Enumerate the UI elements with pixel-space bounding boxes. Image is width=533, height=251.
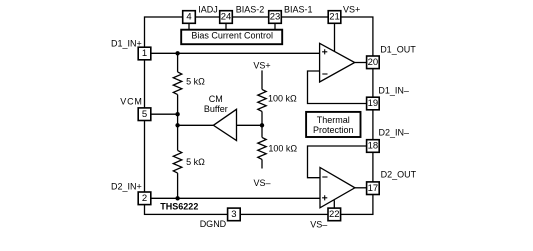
svg-text:5 kΩ: 5 kΩ: [186, 157, 205, 167]
svg-text:23: 23: [270, 12, 281, 23]
svg-text:5: 5: [142, 109, 147, 120]
svg-text:IADJ: IADJ: [198, 4, 218, 14]
svg-text:VS+: VS+: [343, 5, 360, 15]
svg-text:1: 1: [142, 48, 147, 59]
svg-text:VS–: VS–: [310, 219, 327, 229]
svg-text:THS6222: THS6222: [160, 202, 198, 212]
svg-text:4: 4: [186, 12, 191, 23]
svg-text:20: 20: [368, 57, 379, 68]
svg-text:21: 21: [329, 12, 340, 23]
svg-text:100 kΩ: 100 kΩ: [268, 143, 297, 153]
svg-text:DGND: DGND: [200, 219, 227, 229]
svg-text:D1_IN–: D1_IN–: [378, 86, 409, 96]
svg-text:2: 2: [142, 193, 147, 204]
svg-text:D2_IN–: D2_IN–: [379, 128, 410, 138]
svg-text:BIAS-1: BIAS-1: [284, 4, 313, 14]
svg-text:17: 17: [368, 183, 379, 194]
svg-text:D1_IN+: D1_IN+: [111, 38, 142, 48]
svg-text:Buffer: Buffer: [204, 104, 228, 114]
svg-text:D2_IN+: D2_IN+: [111, 181, 142, 191]
svg-text:Protection: Protection: [313, 125, 354, 135]
svg-text:BIAS-2: BIAS-2: [236, 4, 265, 14]
svg-text:22: 22: [329, 209, 340, 220]
svg-text:24: 24: [221, 12, 232, 23]
svg-text:5 kΩ: 5 kΩ: [186, 76, 205, 86]
svg-text:D1_OUT: D1_OUT: [380, 45, 416, 55]
svg-text:CM: CM: [209, 94, 223, 104]
svg-text:Thermal: Thermal: [317, 115, 350, 125]
svg-text:19: 19: [368, 98, 379, 109]
svg-text:VS+: VS+: [253, 61, 270, 71]
svg-text:Bias Current Control: Bias Current Control: [191, 31, 273, 41]
svg-text:3: 3: [231, 209, 236, 220]
svg-text:D2_OUT: D2_OUT: [381, 169, 417, 179]
svg-text:VCM: VCM: [120, 96, 142, 106]
svg-text:18: 18: [368, 141, 379, 152]
svg-text:100 kΩ: 100 kΩ: [268, 93, 297, 103]
svg-text:VS–: VS–: [253, 178, 270, 188]
